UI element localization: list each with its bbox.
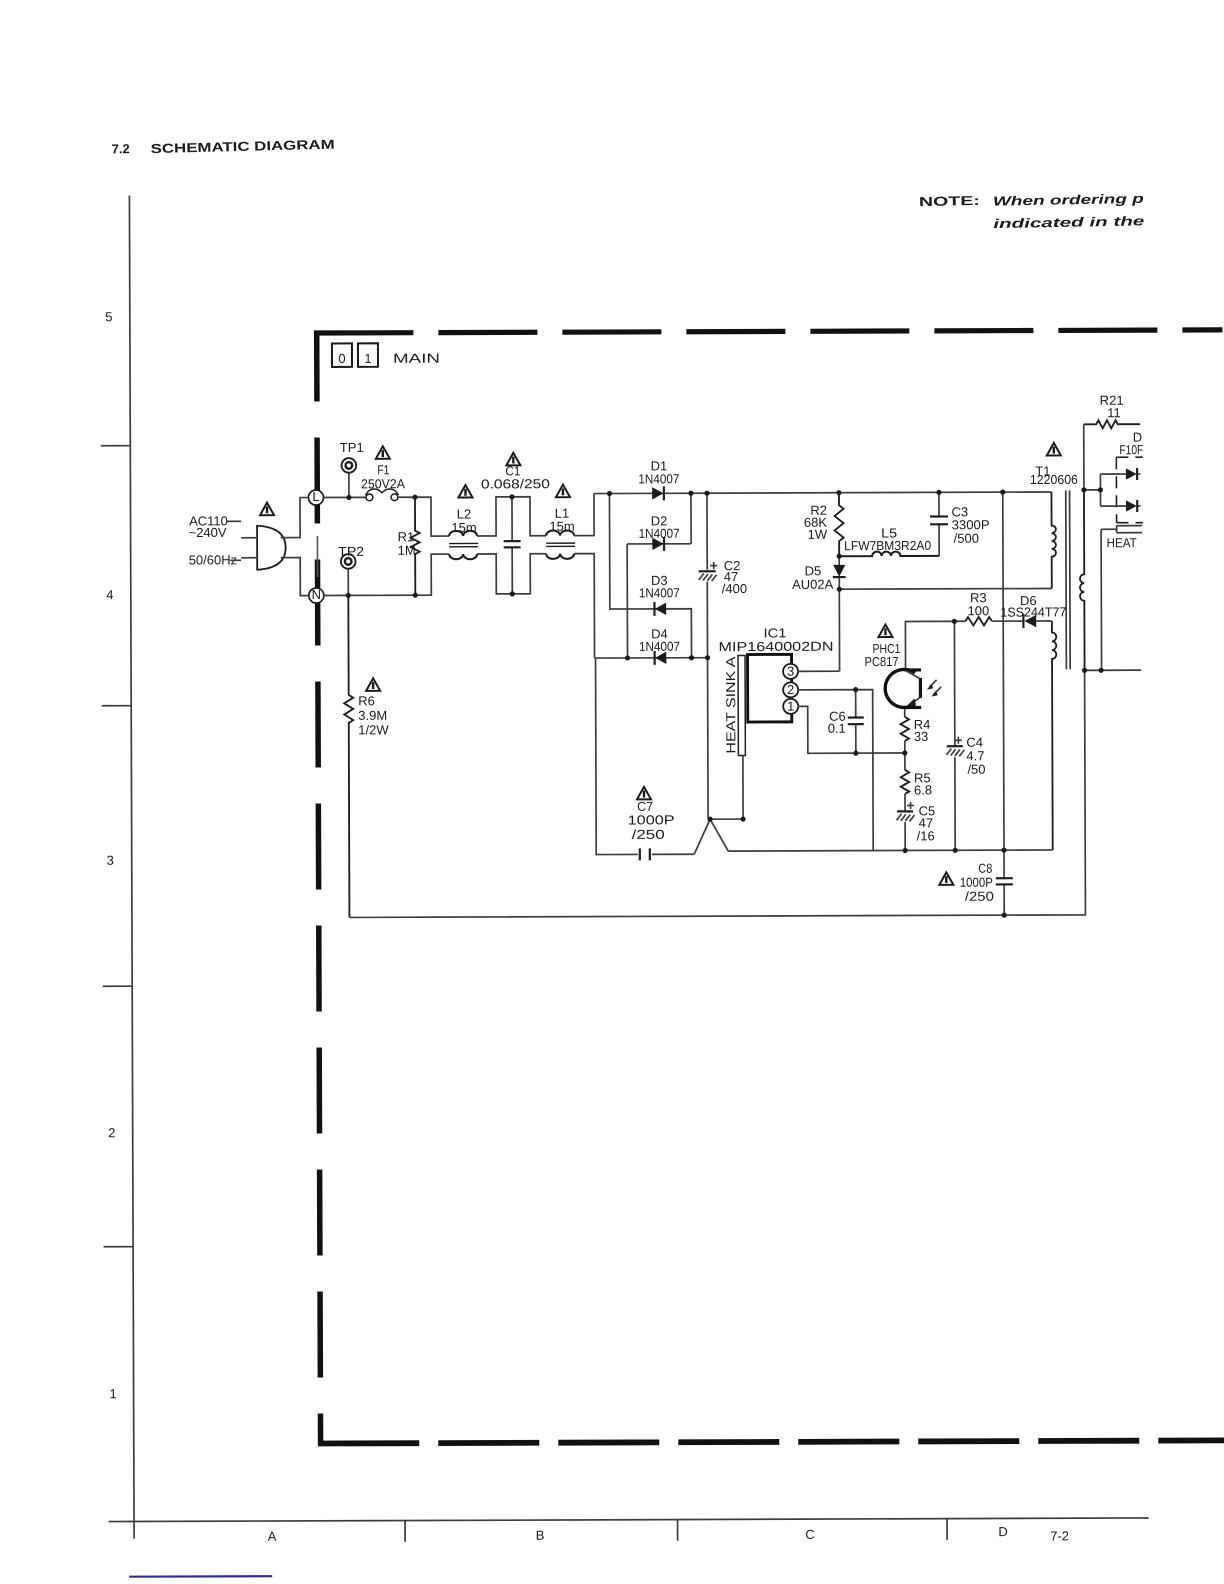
diode D3 <box>654 602 666 616</box>
wire secondary top to rectifiers <box>1084 474 1126 506</box>
ground junction wires (tent) <box>694 819 743 854</box>
svg-text:C8: C8 <box>978 861 992 876</box>
wire D5 to T1 primary bottom <box>839 587 1051 590</box>
border thin joint segment <box>316 536 318 577</box>
junction C1 top <box>509 494 514 499</box>
junction TP1 / L line <box>346 495 351 500</box>
capacitor C2 <box>699 571 717 581</box>
C6 label <box>828 709 846 736</box>
AC plug symbol <box>257 526 286 570</box>
svg-text:MAIN: MAIN <box>393 351 440 366</box>
TP1 stem wire <box>348 473 350 497</box>
rectifier diode bottom wire <box>1101 505 1126 507</box>
svg-text:D: D <box>998 1524 1007 1539</box>
C7 left wire <box>596 658 638 855</box>
svg-text:N: N <box>312 587 321 602</box>
AC plug prongs <box>241 538 257 558</box>
junction C2 bottom rail <box>705 655 710 660</box>
wire pin1 <box>798 706 905 753</box>
warning triangle (C8) <box>939 872 953 885</box>
board label box 1 <box>358 343 378 367</box>
svg-text:R6: R6 <box>358 693 375 708</box>
junction C8 top wire <box>1001 848 1006 853</box>
svg-text:6.8: 6.8 <box>914 782 932 797</box>
diode D4 <box>655 651 667 665</box>
warning triangle (L1) <box>556 485 570 498</box>
svg-text:2: 2 <box>108 1125 115 1140</box>
IC1 pin 2 <box>783 682 798 697</box>
svg-text:1220606: 1220606 <box>1030 472 1078 487</box>
capacitor C5 <box>897 811 915 850</box>
svg-text:1N4007: 1N4007 <box>639 639 680 654</box>
test point TP1 <box>342 458 357 473</box>
svg-text:3.9M: 3.9M <box>358 708 387 723</box>
T1 label <box>1030 463 1078 487</box>
PHC1 light arrows <box>927 680 941 697</box>
svg-text:/500: /500 <box>954 531 979 546</box>
C2 plus sign <box>710 562 717 569</box>
svg-text:PC817: PC817 <box>865 654 899 669</box>
junction heat sink B wire <box>1098 668 1103 673</box>
resistor R21 <box>1084 420 1141 428</box>
R3 label <box>967 590 989 618</box>
terminal N <box>309 587 324 603</box>
diode D1 <box>652 486 664 500</box>
heat sink A wire <box>742 756 744 819</box>
TP2 stem wire <box>347 569 349 595</box>
ruler tick 4/5 <box>101 445 130 447</box>
svg-text:1N4007: 1N4007 <box>639 526 680 541</box>
svg-text:5: 5 <box>105 309 112 324</box>
test point TP2 <box>341 554 356 569</box>
junction C3 top rail <box>936 490 941 495</box>
svg-text:2: 2 <box>787 682 794 697</box>
AC input label leads <box>226 521 241 560</box>
D2 label <box>639 513 680 541</box>
AC input label <box>189 513 238 567</box>
C7 label <box>628 799 675 842</box>
long vertical wire (top rail to C8) <box>1003 492 1004 850</box>
junction C4 bottom wire <box>953 848 958 853</box>
svg-text:7.2: 7.2 <box>111 141 129 156</box>
transformer T1 primary winding <box>1051 492 1056 589</box>
svg-text:/50: /50 <box>967 762 985 777</box>
junction R4 / R5 / pin1 <box>902 750 907 755</box>
resistor R4 <box>901 717 909 741</box>
svg-text:NOTE:: NOTE: <box>919 193 980 209</box>
junction D2 branch bottom rail <box>625 655 630 660</box>
capacitor C7 <box>640 848 650 860</box>
svg-text:1N4007: 1N4007 <box>639 585 680 600</box>
R1 label <box>398 529 416 558</box>
svg-text:1W: 1W <box>808 527 828 542</box>
junction D3 branch top rail <box>607 491 612 496</box>
IC1 label <box>718 625 833 654</box>
R21 label <box>1100 393 1124 421</box>
svg-text:1: 1 <box>109 1386 116 1401</box>
C1 label <box>481 463 550 491</box>
wire R4 to R5 <box>904 741 906 770</box>
transformer T1 core <box>1066 490 1070 669</box>
capacitor C8 <box>996 850 1013 915</box>
IC1 body <box>748 654 792 722</box>
R4 label <box>914 717 931 744</box>
diode D5 <box>833 556 846 589</box>
C4 label <box>966 735 985 777</box>
C5 plus sign <box>907 802 914 809</box>
ruler tick 1/2 <box>104 1246 133 1248</box>
rectifier diode bottom <box>1126 500 1141 512</box>
svg-text:TP1: TP1 <box>340 440 364 455</box>
warning triangle (R6) <box>366 678 380 691</box>
top rail wire (bridge to T1) <box>594 492 1051 494</box>
svg-text:L: L <box>312 489 319 504</box>
wire plug to L terminal <box>280 498 308 538</box>
ruler bottom tick B/C <box>677 1520 679 1541</box>
svg-text:250V2A: 250V2A <box>361 476 405 491</box>
wire L2 to C1 top <box>477 497 546 536</box>
svg-text:4: 4 <box>106 587 113 602</box>
C8 label <box>960 861 994 904</box>
svg-text:1: 1 <box>364 351 371 366</box>
capacitor C4 <box>946 746 964 756</box>
heading 7.2 SCHEMATIC DIAGRAM <box>111 136 334 157</box>
board 01 MAIN dashed border left <box>317 331 321 1446</box>
svg-text:B: B <box>536 1528 545 1543</box>
junction R2 top rail <box>836 490 841 495</box>
junction C6 bottom <box>853 751 858 756</box>
bottom rail wire y851 <box>728 850 1052 851</box>
junction R1 top <box>412 495 417 500</box>
inductor L2 (common-mode choke) <box>449 531 478 560</box>
resistor R6 <box>344 595 354 917</box>
wire N terminal to L2 <box>324 554 450 595</box>
svg-text:F1: F1 <box>377 462 389 477</box>
svg-text:1N4007: 1N4007 <box>638 471 679 486</box>
svg-text:SCHEMATIC DIAGRAM: SCHEMATIC DIAGRAM <box>150 137 334 156</box>
secondary bottom wire <box>1085 669 1141 671</box>
resistor R5 <box>901 770 909 794</box>
ruler bottom tick A/B <box>404 1521 406 1542</box>
svg-text:C: C <box>805 1527 814 1542</box>
bottom rail wire of bridge <box>595 657 708 659</box>
D1 label <box>638 458 679 486</box>
warning triangle (AC input) <box>260 503 274 516</box>
svg-text:TP2: TP2 <box>338 544 364 559</box>
wire pin3 to D5 node <box>798 670 840 672</box>
junction R1 bottom <box>413 593 418 598</box>
junction rectifier branch <box>1098 487 1103 492</box>
svg-text:3: 3 <box>787 664 794 679</box>
wire L1 top to bridge top rail <box>574 494 594 536</box>
D2 branch wire <box>627 493 692 658</box>
svg-text:0.1: 0.1 <box>828 721 846 736</box>
rectifier diode top <box>1126 468 1141 480</box>
svg-text:7-2: 7-2 <box>1050 1528 1069 1543</box>
svg-text:1: 1 <box>787 699 794 714</box>
junction C6 top <box>853 687 858 692</box>
capacitor C1 <box>503 497 520 594</box>
wire L1 bottom to bridge bottom rail <box>574 554 594 659</box>
warning triangle (C7) <box>637 787 651 800</box>
svg-text:50/60Hz: 50/60Hz <box>189 552 237 567</box>
blue scan mark <box>129 1575 272 1578</box>
junction C5 bottom wire <box>903 848 908 853</box>
heat sink B bar <box>1117 526 1143 533</box>
C4 wire <box>953 621 956 850</box>
ruler bottom line <box>109 1518 1149 1522</box>
junction secondary top <box>1081 487 1086 492</box>
capacitor C3 <box>930 492 948 556</box>
heat sink A <box>738 656 745 756</box>
diode D2 <box>652 537 664 551</box>
PHC1 label <box>864 641 900 669</box>
board 01 MAIN dashed border bottom <box>318 1440 1224 1443</box>
svg-text:3: 3 <box>107 853 114 868</box>
C4 plus sign <box>955 737 962 744</box>
D5 label <box>792 563 834 592</box>
svg-text:HEAT: HEAT <box>1107 535 1137 550</box>
L2 label <box>451 506 476 535</box>
D4 label <box>639 626 680 654</box>
F1 label <box>361 462 405 491</box>
heat sink B wire <box>1101 529 1117 670</box>
bottom long wire <box>349 670 1086 917</box>
ruler bottom tick C/D <box>946 1519 948 1540</box>
C5 label <box>917 803 936 843</box>
svg-text:~240V: ~240V <box>189 525 227 540</box>
D3 label <box>639 573 680 601</box>
junction heat sink A wire <box>740 816 745 821</box>
junction C8 bottom wire <box>1002 913 1007 918</box>
junction secondary bottom <box>1082 668 1087 673</box>
wire R21 to secondary <box>1083 424 1085 489</box>
svg-text:33: 33 <box>914 729 929 744</box>
wire plug to N terminal <box>281 558 309 596</box>
wire fuse to filter <box>398 497 449 536</box>
wire pin3 riser <box>838 589 840 671</box>
R6 label <box>358 693 389 737</box>
C3 label <box>951 504 989 546</box>
svg-text:/250: /250 <box>965 889 994 904</box>
svg-text:F10F: F10F <box>1119 442 1143 457</box>
warning triangle (PHC1) <box>878 625 892 638</box>
IC1 pin 1 <box>783 699 798 714</box>
junction C4 / R3 line <box>952 619 957 624</box>
IC1 pin 3 <box>783 664 798 679</box>
ruler vertical line <box>129 196 134 1539</box>
board 01 MAIN dashed border top <box>314 330 1222 333</box>
wire R3 to D6 <box>992 620 1022 622</box>
optocoupler PHC1 <box>885 669 921 707</box>
ruler tick 3/4 <box>102 705 131 707</box>
junction D2 branch top rail <box>688 491 693 496</box>
junction C8 riser top rail <box>1000 490 1005 495</box>
R2 label <box>804 503 828 542</box>
transformer T1 secondary winding <box>1080 490 1085 671</box>
resistor R2 <box>834 493 843 557</box>
D3 branch wire <box>609 493 691 658</box>
svg-text:/16: /16 <box>917 828 935 843</box>
emitter wire to R4 <box>904 709 906 717</box>
svg-text:/250: /250 <box>632 827 665 842</box>
svg-text:AU02A: AU02A <box>792 577 834 592</box>
wire L terminal to fuse <box>323 496 365 498</box>
capacitor C2 wire <box>707 493 708 819</box>
note text <box>919 190 1145 233</box>
ruler tick 2/3 <box>103 985 132 987</box>
diode D6 <box>1023 614 1052 628</box>
inductor L1 (common-mode choke) <box>546 530 575 559</box>
svg-text:0.068/250: 0.068/250 <box>481 476 550 491</box>
svg-text:MIP1640002DN: MIP1640002DN <box>718 639 833 654</box>
svg-text:HEAT SINK A: HEAT SINK A <box>723 656 738 753</box>
svg-text:0: 0 <box>338 351 345 366</box>
resistor R3 <box>965 617 992 625</box>
C7 right wire <box>652 853 694 855</box>
junction D5 / pin3 / T1 primary <box>837 587 842 592</box>
L1 label <box>549 506 574 534</box>
junction C1 bottom <box>510 591 515 596</box>
wire L2 to C1 bottom <box>477 554 546 594</box>
L5 label <box>844 525 931 553</box>
warning triangle (T1) <box>1047 443 1061 456</box>
capacitor C6 <box>848 690 864 754</box>
junction D3 branch bottom rail <box>689 655 694 660</box>
board label box 0 <box>332 343 352 367</box>
svg-text:1000P: 1000P <box>628 812 675 827</box>
terminal L <box>308 489 323 505</box>
fuse F1 <box>365 489 398 501</box>
D6 label <box>1000 593 1066 620</box>
svg-text:1000P: 1000P <box>960 875 993 890</box>
warning triangle (F1) <box>376 446 390 459</box>
junction TP2 / R6 / N line <box>346 593 351 598</box>
junction star point <box>707 817 712 822</box>
svg-text:1/2W: 1/2W <box>358 722 389 737</box>
svg-text:1M: 1M <box>398 543 416 558</box>
resistor R1 <box>410 497 419 595</box>
svg-text:11: 11 <box>1107 405 1121 420</box>
PHC1 collector wire <box>905 621 965 668</box>
junction C2 top <box>704 491 709 496</box>
svg-text:/400: /400 <box>722 581 747 596</box>
inductor L5 <box>839 551 939 556</box>
C2 label <box>722 558 747 596</box>
warning triangle (C1) <box>506 453 520 466</box>
R5 label <box>914 770 932 797</box>
svg-text:A: A <box>268 1529 277 1544</box>
transformer T1 feedback winding <box>1052 621 1057 850</box>
junction R2 / D5 / L5 <box>837 554 842 559</box>
warning triangle (L2) <box>458 485 472 498</box>
wire pin2 <box>798 690 874 851</box>
svg-text:indicated in the: indicated in the <box>993 213 1144 231</box>
rectifier dashed box <box>1116 457 1143 523</box>
wire R5 to C5 <box>904 794 906 811</box>
svg-text:When ordering p: When ordering p <box>993 191 1144 209</box>
